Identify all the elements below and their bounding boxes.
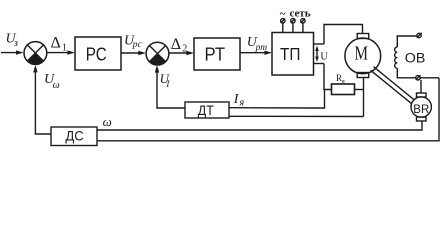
wire Uz input arrow bbox=[1, 50, 24, 54]
wire armature bottom: TP down to Rya bbox=[324, 64, 332, 90]
node Iya label bbox=[233, 92, 245, 109]
speed sensor DS box bbox=[51, 127, 97, 146]
wire PT to TP bbox=[240, 51, 272, 55]
wire DT top line bbox=[229, 107, 313, 109]
wire DT output to sum2 bbox=[155, 65, 185, 108]
node ~ set (mains) label bbox=[280, 7, 311, 20]
wire TP output bottom stub bbox=[314, 63, 325, 65]
svg-text:M: M bbox=[355, 43, 369, 65]
terminal junction near BR bbox=[416, 75, 421, 80]
regulator PC box bbox=[75, 37, 121, 70]
svg-text:ω: ω bbox=[53, 80, 60, 91]
summing junction 1 bbox=[24, 42, 47, 65]
wire Rya right to motor bottom bbox=[355, 89, 364, 91]
svg-text:Δ: Δ bbox=[51, 35, 61, 52]
summing junction 2 bbox=[146, 42, 169, 65]
shaft motor to BR bbox=[371, 67, 415, 104]
wire PC to sum2 bbox=[121, 51, 146, 55]
tachogenerator BR brush bottom bbox=[417, 117, 427, 121]
svg-text:рс: рс bbox=[132, 40, 143, 50]
wire motor bottom brush down bbox=[363, 78, 365, 117]
svg-text:ω: ω bbox=[103, 114, 112, 129]
node Rya label bbox=[336, 73, 345, 85]
AC terminal 2 bbox=[291, 19, 295, 33]
svg-text:BR: BR bbox=[413, 102, 429, 116]
svg-text:РТ: РТ bbox=[205, 43, 226, 64]
svg-text:I: I bbox=[165, 79, 170, 89]
node D2 label bbox=[171, 36, 188, 55]
wire DT tap left bbox=[313, 90, 325, 109]
svg-text:Δ: Δ bbox=[171, 36, 181, 53]
svg-text:з: з bbox=[13, 38, 18, 49]
svg-text:1: 1 bbox=[62, 42, 67, 53]
motor M brush top bbox=[357, 34, 369, 39]
regulator PT box bbox=[194, 38, 240, 70]
svg-text:я: я bbox=[239, 98, 245, 109]
wire OV top to terminal bbox=[397, 36, 416, 47]
wire BR top connection bbox=[420, 80, 422, 93]
node Uomega label bbox=[44, 72, 60, 91]
svg-text:РС: РС bbox=[86, 43, 107, 64]
motor M brush bottom bbox=[357, 73, 369, 78]
wire DS input top (from BR bottom) bbox=[97, 121, 422, 130]
node UI label bbox=[160, 71, 171, 89]
wire DS output to sum1 bbox=[33, 65, 51, 134]
wire terminal to right edge bbox=[420, 77, 439, 79]
wire DS input bottom (from OV/BR circuit) bbox=[97, 78, 439, 141]
node D1 label bbox=[51, 35, 68, 54]
wire sum1 to PC bbox=[47, 50, 75, 54]
AC terminal 3 bbox=[301, 19, 305, 33]
svg-text:я: я bbox=[342, 78, 345, 85]
wire sum2 to PT bbox=[169, 51, 194, 55]
node Uz input label bbox=[6, 32, 19, 49]
wire armature top: TP to motor brush bbox=[324, 25, 363, 45]
AC terminal 1 bbox=[281, 19, 285, 33]
tachogenerator BR brush top bbox=[417, 93, 427, 97]
node U voltage arrow bbox=[315, 46, 328, 63]
converter TP box bbox=[272, 33, 314, 76]
svg-text:ДС: ДС bbox=[65, 127, 84, 143]
current sensor DT box bbox=[185, 102, 229, 118]
tachogenerator BR bbox=[411, 97, 431, 117]
wire TP output top stub bbox=[314, 43, 325, 45]
field winding OV coil bbox=[395, 47, 398, 68]
node Upt label bbox=[247, 35, 267, 53]
svg-text:ДТ: ДТ bbox=[198, 103, 214, 118]
svg-text:U: U bbox=[320, 51, 328, 62]
node Upc label bbox=[124, 33, 143, 50]
svg-text:ОВ: ОВ bbox=[405, 51, 426, 67]
terminal OV top bbox=[417, 33, 422, 38]
svg-text:ТП: ТП bbox=[280, 44, 301, 64]
motor M bbox=[345, 38, 381, 74]
svg-text:сеть: сеть bbox=[290, 7, 311, 19]
wire OV bottom bbox=[397, 68, 415, 78]
wire DT bottom line bbox=[229, 115, 364, 117]
resistor Rya bbox=[332, 84, 355, 95]
